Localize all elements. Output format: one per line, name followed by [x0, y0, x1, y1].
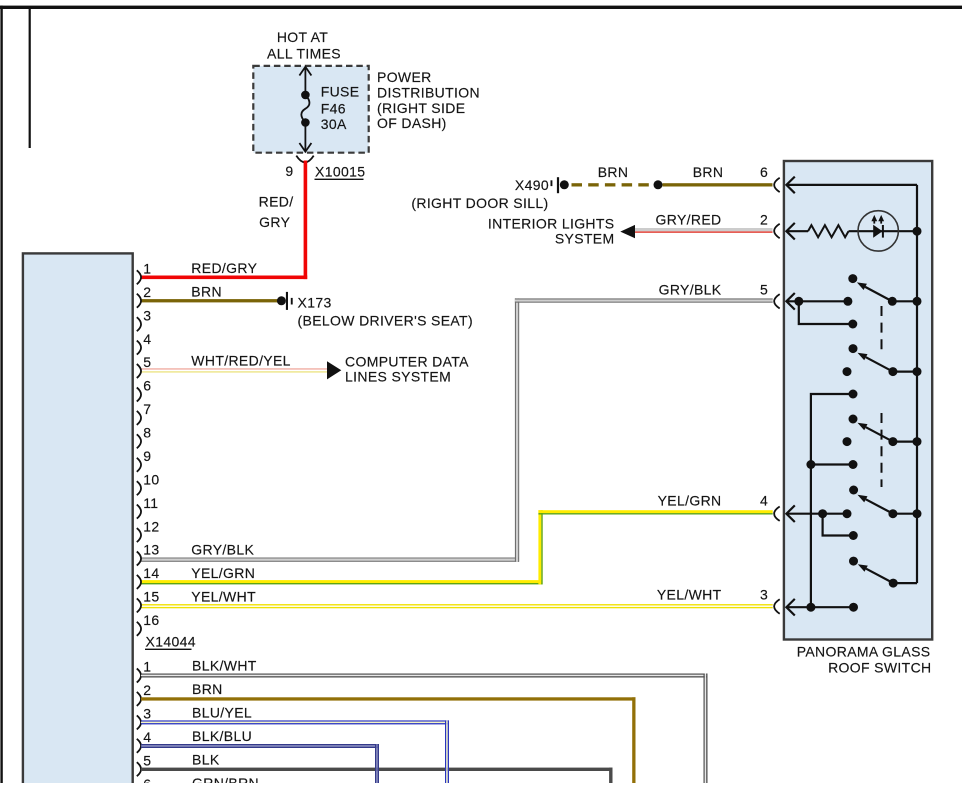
svg-text:ALL TIMES: ALL TIMES	[267, 46, 341, 62]
switch arm sw4	[866, 499, 893, 513]
wire GRY/BLK pin 13 route to switch pin 5	[141, 298, 773, 561]
svg-text:11: 11	[143, 495, 158, 511]
svg-text:5: 5	[143, 354, 151, 370]
label RED/ GRY	[259, 194, 294, 231]
LED diode triangle and bar	[873, 225, 882, 238]
fuse F46 30A symbol	[299, 67, 311, 152]
svg-text:6: 6	[143, 776, 151, 783]
svg-text:16: 16	[143, 612, 159, 628]
contact dot row 464 with junction	[849, 460, 858, 469]
wire resistor to bus	[849, 230, 918, 232]
contact dot pin3 end	[849, 603, 858, 612]
svg-text:10: 10	[143, 471, 159, 487]
svg-text:BLK/BLU: BLK/BLU	[192, 728, 252, 744]
svg-text:1: 1	[143, 659, 151, 675]
page border left	[0, 6, 2, 783]
switch pin 6 arc	[774, 178, 780, 192]
contact dot sw5 upper	[849, 557, 858, 566]
svg-text:X173: X173	[298, 295, 332, 311]
svg-text:BRN: BRN	[191, 283, 222, 299]
wire sw2 pivot to bus	[893, 371, 917, 373]
svg-text:9: 9	[143, 448, 151, 464]
contact dot pin4 end	[843, 509, 852, 518]
contact dot sw3 upper	[849, 415, 858, 424]
svg-text:5: 5	[760, 282, 768, 298]
svg-text:X490: X490	[515, 177, 549, 193]
switch pin 2 arc	[774, 224, 780, 238]
svg-text:3: 3	[143, 706, 151, 722]
wire YEL/GRN pin 14 route to switch pin 4	[141, 510, 773, 584]
mechanical link dashed sw3-sw4	[881, 413, 883, 487]
wire BLK pin 5 bottom	[141, 768, 613, 783]
svg-text:F46: F46	[321, 101, 346, 117]
svg-text:FUSE: FUSE	[321, 84, 360, 100]
wire WHT/RED/YEL pin 5	[141, 368, 327, 373]
svg-text:POWER: POWER	[377, 69, 432, 85]
svg-text:12: 12	[143, 518, 159, 534]
switch arm sw3	[866, 427, 893, 441]
svg-text:BRN: BRN	[192, 681, 223, 697]
pin 5 wire inside with arrow	[786, 293, 848, 310]
svg-text:ROOF SWITCH: ROOF SWITCH	[828, 659, 931, 675]
wire stub top left	[29, 9, 31, 148]
branch wire to lower contact sw1	[799, 301, 853, 324]
wire BRN solid to switch pin 6	[663, 183, 773, 186]
contact dot sw4 lower	[849, 531, 858, 540]
contact dot sw2 upper	[849, 344, 858, 353]
svg-text:2: 2	[760, 211, 768, 227]
contact dot sw1 upper	[848, 274, 857, 283]
label HOT AT ALL TIMES	[267, 29, 341, 62]
second connector pin numbers	[143, 659, 151, 788]
contact dot sw3 left	[843, 437, 852, 446]
wire YEL/WHT pin 15 to switch pin 3	[141, 604, 773, 608]
pin 6 wire inside with arrow	[786, 177, 917, 194]
svg-text:PANORAMA GLASS: PANORAMA GLASS	[797, 643, 931, 659]
svg-text:YEL/GRN: YEL/GRN	[191, 565, 255, 581]
mechanical link dashed sw1-sw2	[881, 306, 883, 352]
switch arm sw5	[866, 569, 893, 583]
pivot dot sw5	[889, 579, 898, 588]
svg-text:GRY/BLK: GRY/BLK	[659, 282, 722, 298]
internal bus wire	[916, 185, 918, 583]
svg-text:COMPUTER DATA: COMPUTER DATA	[345, 353, 469, 369]
wire sw1 pivot to bus	[892, 300, 917, 302]
svg-text:8: 8	[143, 425, 151, 441]
label POWER DISTRIBUTION (RIGHT SIDE OF DASH)	[377, 69, 480, 131]
svg-text:(RIGHT DOOR SILL): (RIGHT DOOR SILL)	[411, 195, 548, 211]
svg-text:2: 2	[143, 682, 151, 698]
wire BLU/YEL vertical drop	[445, 720, 449, 783]
svg-text:BRN: BRN	[693, 164, 724, 180]
svg-text:2: 2	[143, 284, 151, 300]
svg-text:INTERIOR LIGHTS: INTERIOR LIGHTS	[488, 215, 615, 231]
branch wire left rail	[811, 394, 853, 607]
switch pin 4 arc	[774, 507, 780, 521]
svg-text:RED/: RED/	[259, 194, 294, 210]
svg-text:SYSTEM: SYSTEM	[555, 231, 615, 247]
switch arm sw2	[866, 357, 893, 371]
wire BRN pin 2 bottom	[141, 697, 636, 783]
svg-text:X14044: X14044	[146, 634, 196, 650]
svg-text:BLK/WHT: BLK/WHT	[192, 658, 257, 674]
X14044 pin numbers group 1	[143, 261, 159, 629]
X14044 pin arcs group 1	[137, 270, 141, 636]
svg-text:9: 9	[285, 163, 293, 179]
pivot dot sw2	[888, 367, 897, 376]
svg-text:4: 4	[760, 493, 768, 509]
wire sw3 pivot to bus	[893, 441, 917, 443]
label FUSE F46 30A	[321, 84, 360, 133]
module connector box X14044	[23, 253, 133, 788]
contact dot pin5 end	[843, 297, 852, 306]
page border top	[0, 6, 962, 9]
connector X10015 pin 9 arc	[296, 156, 313, 163]
svg-text:3: 3	[760, 587, 768, 603]
arrow to computer data lines system	[327, 361, 341, 379]
pivot dot sw3	[888, 437, 897, 446]
svg-text:OF DASH): OF DASH)	[377, 115, 447, 131]
resistor	[808, 225, 849, 237]
svg-text:YEL/WHT: YEL/WHT	[191, 588, 256, 604]
svg-text:BRN: BRN	[598, 164, 629, 180]
label INTERIOR LIGHTS SYSTEM	[488, 215, 615, 246]
wire BRN dashed segment	[572, 183, 649, 186]
junction dot pin5	[794, 297, 803, 306]
wire BRN pin 2	[141, 299, 283, 302]
junction dot left rail pin3	[806, 603, 815, 612]
wire BLK/BLU vertical drop	[375, 744, 379, 783]
second connector pin arcs	[137, 669, 141, 788]
LED arrows	[871, 215, 884, 224]
svg-text:BLK: BLK	[192, 751, 220, 767]
wire BLK/WHT pin 1 bottom	[141, 674, 708, 784]
arrow interior lights	[620, 225, 635, 238]
junction dot pin4	[818, 509, 827, 518]
wire GRY/RED to switch pin 2	[630, 228, 773, 233]
svg-text:LINES SYSTEM: LINES SYSTEM	[345, 369, 451, 385]
svg-text:(BELOW DRIVER'S SEAT): (BELOW DRIVER'S SEAT)	[298, 313, 473, 329]
svg-text:GRY/RED: GRY/RED	[656, 211, 722, 227]
connector X173 splice	[277, 296, 286, 305]
fuse box F46 power distribution	[253, 66, 368, 153]
svg-text:5: 5	[143, 752, 151, 768]
contact dot sw2 left	[843, 367, 852, 376]
svg-text:7: 7	[143, 401, 151, 417]
svg-text:30A: 30A	[321, 116, 347, 132]
wire RED/GRY vertical from fuse	[304, 161, 308, 280]
branch wire to lower contact sw4	[823, 514, 854, 536]
contact dot sw1 lower	[848, 320, 857, 329]
pivot dot sw1	[888, 297, 897, 306]
junction dot bus pin2	[913, 227, 922, 236]
svg-text:1: 1	[143, 261, 151, 277]
svg-text:WHT/RED/YEL: WHT/RED/YEL	[191, 353, 291, 369]
pin 2 wire inside with arrow	[786, 223, 808, 240]
svg-text:RED/GRY: RED/GRY	[191, 260, 257, 276]
svg-text:14: 14	[143, 565, 159, 581]
svg-text:(RIGHT SIDE: (RIGHT SIDE	[377, 100, 465, 116]
splice dot	[654, 180, 663, 189]
svg-text:6: 6	[143, 378, 151, 394]
contact dot row 394	[849, 390, 858, 399]
svg-text:DISTRIBUTION: DISTRIBUTION	[377, 84, 480, 100]
svg-text:15: 15	[143, 589, 159, 605]
wire RED/GRY pin 1 horizontal	[141, 276, 307, 280]
svg-text:6: 6	[760, 164, 768, 180]
svg-text:3: 3	[143, 307, 151, 323]
svg-text:BLU/YEL: BLU/YEL	[192, 705, 252, 721]
wire BLK/BLU pin 4 bottom	[141, 744, 379, 748]
panorama glass roof switch box	[784, 161, 932, 640]
svg-text:13: 13	[143, 542, 159, 558]
svg-text:YEL/GRN: YEL/GRN	[658, 493, 722, 509]
svg-text:YEL/WHT: YEL/WHT	[657, 587, 722, 603]
wire sw4 pivot to bus	[893, 513, 917, 515]
pin 3 wire inside with arrow	[786, 599, 853, 616]
svg-text:X10015: X10015	[315, 164, 365, 180]
switch pin 3 arc	[774, 599, 780, 613]
pin 4 wire inside with arrow	[786, 505, 847, 522]
svg-text:4: 4	[143, 729, 151, 745]
wire BLU/YEL pin 3 bottom	[141, 720, 449, 724]
svg-text:4: 4	[143, 331, 151, 347]
svg-text:HOT AT: HOT AT	[277, 29, 328, 45]
pivot dot sw4	[888, 509, 897, 518]
switch pin 5 arc	[774, 294, 780, 308]
svg-text:GRY/BLK: GRY/BLK	[191, 542, 254, 558]
svg-text:GRN/BRN: GRN/BRN	[192, 775, 259, 783]
switch arm sw1	[865, 287, 892, 301]
contact dot sw4 upper	[849, 486, 858, 495]
LED lamp circle	[858, 211, 898, 251]
wire sw5 pivot to bus corner	[893, 582, 917, 584]
label PANORAMA GLASS ROOF SWITCH	[797, 643, 932, 675]
svg-text:GRY: GRY	[259, 214, 290, 230]
